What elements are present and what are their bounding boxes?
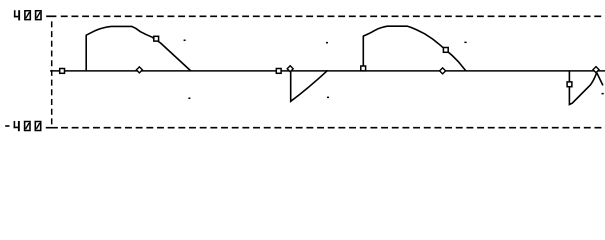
label 400 xyxy=(14,10,42,20)
trace V(load) dip 2 xyxy=(569,71,603,105)
tick bottom axis xyxy=(46,127,58,129)
zero axis line xyxy=(50,70,605,72)
marker square 1 xyxy=(60,69,65,74)
trace V(load) dip 1 xyxy=(291,70,328,101)
trace V(load) hump 1 xyxy=(86,26,191,71)
tick top axis xyxy=(46,15,56,17)
label -400 xyxy=(5,121,41,131)
top gridline +400 dashed xyxy=(61,15,605,17)
trace V(load) hump 2 xyxy=(363,26,466,71)
marker square 5 xyxy=(443,48,448,53)
marker square 6 xyxy=(567,82,572,87)
marker diamond 2 xyxy=(287,66,293,72)
marker diamond 4 xyxy=(593,67,599,73)
marker square 2 xyxy=(154,36,159,41)
marker square 3 xyxy=(276,69,281,74)
bottom gridline -400 dashed xyxy=(61,127,605,129)
marker diamond 1 xyxy=(136,67,142,73)
marker square 4 xyxy=(361,66,366,71)
y-axis dashed vertical xyxy=(51,21,53,126)
marker diamond 3 xyxy=(440,68,446,74)
